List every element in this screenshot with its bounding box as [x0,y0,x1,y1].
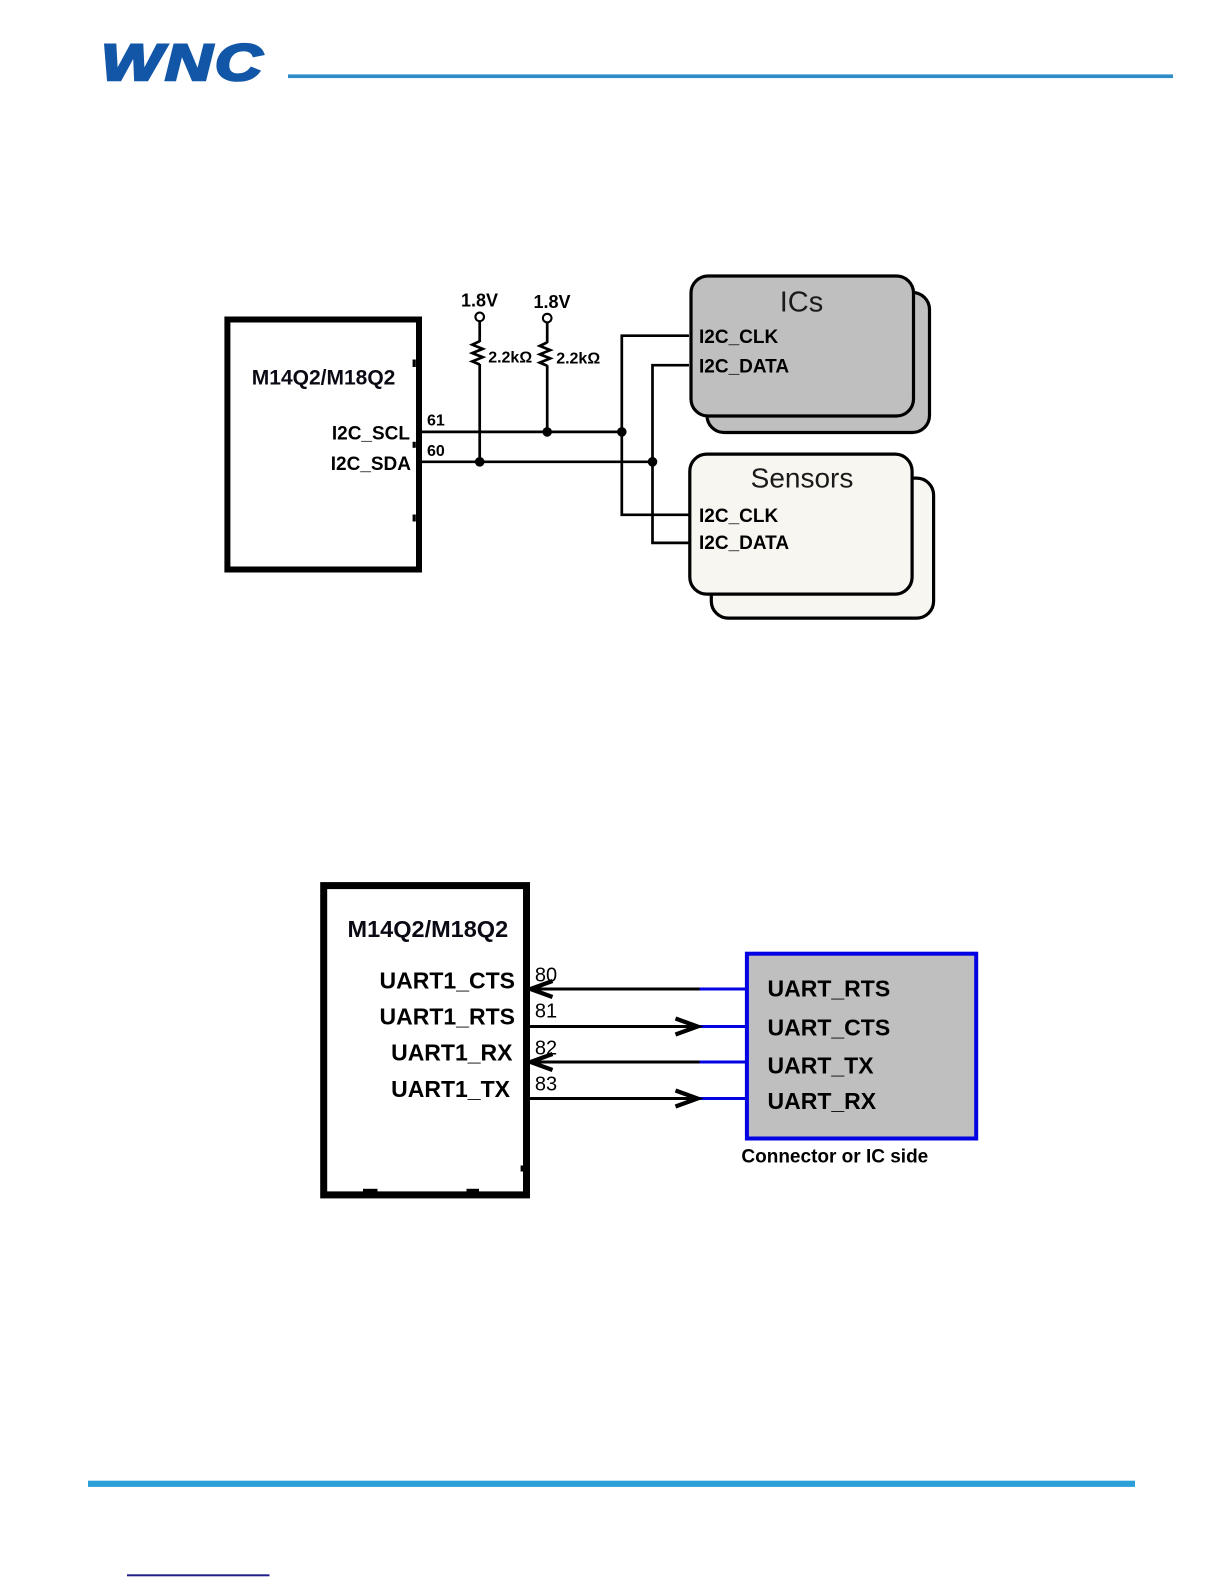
svg-text:1.8V: 1.8V [461,291,498,311]
svg-text:UART1_TX: UART1_TX [391,1076,511,1102]
wire UART_RX blue stub [699,1097,747,1100]
svg-text:M14Q2/M18Q2: M14Q2/M18Q2 [252,367,396,390]
wire SDA bus vertical [653,365,690,543]
module box M14Q2/M18Q2 (UART) [324,886,527,1195]
connector box (blue) [747,954,976,1139]
wire UART1_TX to UART_RX (black) [530,1097,696,1100]
svg-text:UART1_RTS: UART1_RTS [380,1004,515,1030]
resistor R1 2.2k zigzag [472,341,482,364]
wire UART_RTS to UART1_CTS (black) [532,988,700,991]
svg-text:UART1_RX: UART1_RX [391,1040,513,1066]
svg-text:2.2kΩ: 2.2kΩ [556,351,600,368]
Sensors block shadow [711,478,933,618]
WNC logo [101,35,265,92]
junction dot R1/SDA [475,457,485,467]
tick artifact box2 bottom right [467,1189,480,1192]
header rule [288,74,1173,78]
junction dot SCL bus [617,427,627,437]
wire UART1_RTS to UART_CTS (black) [530,1025,696,1028]
svg-text:I2C_DATA: I2C_DATA [699,533,789,554]
module box M14Q2/M18Q2 [227,320,419,570]
svg-text:2.2kΩ: 2.2kΩ [488,350,532,367]
tick artifact box2 bottom left [363,1189,378,1192]
wire UART_RTS blue stub [700,988,748,991]
pin stub artifact box1 mid [413,442,416,448]
arrowhead left (CTS) [531,981,553,997]
nub artifact box2 right border [521,1166,524,1172]
svg-text:1.8V: 1.8V [533,292,570,312]
svg-text:UART_TX: UART_TX [768,1053,875,1079]
svg-text:Connector or IC side: Connector or IC side [741,1147,928,1168]
wire R2 top [546,323,549,343]
wire R1 top [478,321,481,342]
pin stub artifact box1 low [413,515,416,522]
wire UART_TX to UART1_RX (black) [532,1061,700,1064]
svg-text:I2C_CLK: I2C_CLK [699,506,778,527]
wire UART_CTS blue stub [699,1025,747,1028]
svg-text:UART_RTS: UART_RTS [768,976,891,1002]
wire R2 bottom to SCL [546,365,549,432]
svg-text:UART1_CTS: UART1_CTS [380,967,515,993]
power terminal circle (R2) [543,314,552,323]
wire UART_TX blue stub [700,1061,748,1064]
footer rule [88,1481,1135,1487]
arrowhead left (RX) [531,1054,553,1070]
resistor R2 2.2k zigzag [540,342,550,365]
wire I2C_SCL horizontal [422,431,622,434]
Sensors block [690,454,912,594]
wire R1 bottom to SDA [478,364,481,462]
svg-text:61: 61 [427,413,445,430]
svg-text:WNC: WNC [101,35,265,92]
svg-text:M14Q2/M18Q2: M14Q2/M18Q2 [348,916,509,942]
arrowhead right (CTS) [676,1019,698,1035]
wire I2C_SDA horizontal [422,460,653,463]
svg-text:81: 81 [535,1001,557,1023]
power terminal circle (R1) [475,313,484,322]
junction dot SDA bus [648,457,658,467]
svg-text:I2C_DATA: I2C_DATA [699,357,789,378]
svg-text:UART_CTS: UART_CTS [768,1015,891,1041]
ICs block [691,276,914,416]
arrowhead right (RX) [676,1091,698,1107]
ICs block shadow [707,293,930,433]
svg-text:83: 83 [535,1074,557,1096]
junction dot R2/SCL [542,427,552,437]
svg-text:60: 60 [427,443,445,460]
footnote separator [127,1574,270,1576]
svg-text:I2C_CLK: I2C_CLK [699,327,778,348]
wire SCL bus vertical [622,336,689,515]
pin stub artifact box1 top [413,360,416,368]
svg-text:UART_RX: UART_RX [768,1088,877,1114]
svg-text:Sensors: Sensors [751,463,854,494]
svg-text:I2C_SCL: I2C_SCL [332,424,411,445]
svg-text:ICs: ICs [780,287,824,319]
svg-text:I2C_SDA: I2C_SDA [331,454,412,475]
